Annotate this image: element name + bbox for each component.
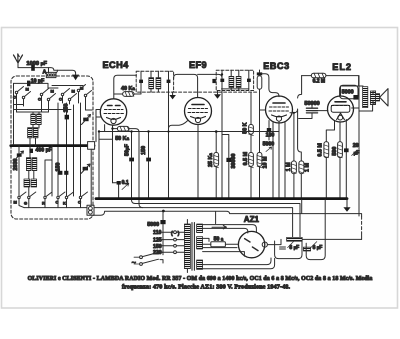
wire avc stub bbox=[99, 138, 113, 140]
tuning gang bus (thick) bbox=[11, 144, 94, 147]
ground arrow antenna bbox=[72, 75, 79, 81]
wire ECH4 left to gang bbox=[91, 110, 100, 206]
svg-text:50 K: 50 K bbox=[242, 122, 248, 133]
resistor 1M second bbox=[299, 161, 311, 174]
svg-text:(: ( bbox=[171, 231, 173, 237]
wire filter loop B bbox=[306, 200, 325, 260]
resistor 0.5M screen bbox=[318, 142, 329, 158]
svg-text:1 M: 1 M bbox=[305, 163, 311, 172]
RF coil L2 bbox=[28, 128, 38, 138]
power transformer bbox=[184, 220, 202, 273]
svg-text:150: 150 bbox=[63, 104, 69, 113]
svg-text:EF9: EF9 bbox=[189, 60, 207, 70]
wire filter loop A bbox=[275, 241, 302, 259]
capacitor 1000pF bbox=[26, 61, 47, 71]
capacitor 0.1 bbox=[113, 180, 129, 190]
wire coupling top bbox=[302, 76, 359, 86]
capacitor 150 bbox=[141, 132, 151, 199]
capacitor 400pF bbox=[29, 148, 52, 154]
HT line bbox=[135, 204, 300, 240]
wire interior horizontals bbox=[14, 86, 93, 115]
mains switch bbox=[132, 252, 163, 267]
wire heater winding bbox=[203, 248, 275, 269]
svg-text:A: A bbox=[43, 69, 47, 75]
voltage taps bbox=[153, 230, 184, 256]
trimmer top right bbox=[82, 115, 91, 125]
resistor 50K bbox=[242, 93, 253, 136]
ground bus (thick) bbox=[96, 197, 347, 200]
svg-text:C: C bbox=[38, 96, 41, 101]
wire EL2 legs bbox=[326, 120, 346, 199]
wire HT winding to AZ1 bbox=[203, 225, 257, 242]
trimmer lower right bbox=[81, 164, 90, 174]
osc coil L4 bbox=[24, 179, 37, 187]
AVC dashed line bbox=[174, 91, 258, 93]
resistor 10M bbox=[257, 89, 269, 198]
svg-text:5000: 5000 bbox=[342, 90, 354, 96]
wire IF1 to EF9 grid bbox=[174, 74, 222, 198]
band switch contacts row 2 bbox=[14, 192, 88, 206]
svg-text:C: C bbox=[59, 96, 62, 101]
svg-text:0.5 M: 0.5 M bbox=[318, 143, 324, 157]
wire EL2 plate to output transformer bbox=[341, 86, 364, 108]
tube EL2 bbox=[328, 96, 354, 122]
junction box on gang bus bbox=[88, 142, 95, 150]
diode load resistor bbox=[257, 70, 262, 89]
wire verticals inside coil box bbox=[58, 103, 81, 196]
wire switch commons to mains line bbox=[19, 199, 81, 208]
capacitor 8uF second bbox=[303, 242, 322, 251]
IF transformer 2 bbox=[216, 70, 253, 90]
wire EF9 legs bbox=[169, 92, 199, 199]
capacitor 5000 tone bbox=[340, 85, 359, 99]
wire IF2 to EBC3 bbox=[262, 74, 279, 97]
resistor cathode ECH4 bbox=[113, 126, 143, 207]
svg-text:150: 150 bbox=[153, 244, 162, 250]
wires left interior bbox=[14, 83, 53, 196]
tube EBC3 bbox=[266, 96, 293, 123]
antenna bbox=[14, 54, 23, 68]
ground arrow IF2 bbox=[214, 91, 221, 99]
resistor 0.5M bbox=[243, 134, 253, 198]
svg-text:30000: 30000 bbox=[231, 154, 237, 169]
svg-text:EL2: EL2 bbox=[332, 62, 352, 72]
tube AZ1 bbox=[238, 215, 267, 258]
resistor 25K bbox=[208, 132, 218, 199]
wire EBC3 plate up to coupling bbox=[260, 76, 302, 199]
svg-text:frequenza: 470 kc/s. Placche A: frequenza: 470 kc/s. Placche AZ1: 380 V.… bbox=[122, 283, 291, 290]
svg-text:ECH4: ECH4 bbox=[103, 60, 130, 70]
svg-text:1000 pF: 1000 pF bbox=[26, 61, 47, 67]
capacitor 50pF bbox=[124, 132, 135, 204]
wire antenna to coupling bbox=[18, 68, 76, 75]
ground arrow main bbox=[343, 199, 350, 212]
wire EF9 plate stub bbox=[222, 88, 249, 90]
svg-text:400 pF: 400 pF bbox=[36, 148, 52, 154]
svg-text:OLIVIERI e CLISENTI - LAMBDA R: OLIVIERI e CLISENTI - LAMBDA RADIO Mod. … bbox=[28, 276, 373, 282]
svg-text:5000: 5000 bbox=[147, 222, 159, 228]
capacitor 10pF bbox=[14, 78, 49, 88]
wire ECH4 legs bbox=[99, 125, 119, 199]
resistor 50 surge bbox=[203, 226, 239, 247]
dashed coil box bbox=[11, 76, 93, 219]
filter line bbox=[267, 239, 361, 244]
resistor 50000 grid bbox=[299, 101, 328, 118]
tube EF9 bbox=[185, 98, 212, 125]
capacitor 150 (osc padder) bbox=[63, 104, 69, 120]
wire EBC3 legs bbox=[273, 122, 285, 199]
osc coil L3 bbox=[26, 158, 36, 171]
junction dots bbox=[98, 73, 295, 212]
RF coil L1 bbox=[31, 112, 41, 128]
svg-text:125: 125 bbox=[153, 238, 162, 244]
svg-text:10 M: 10 M bbox=[263, 156, 269, 168]
svg-text:0.2 M: 0.2 M bbox=[313, 79, 326, 85]
capacitor 30000 bbox=[222, 135, 237, 199]
wire left risers bbox=[17, 92, 86, 112]
svg-text:EBC3: EBC3 bbox=[263, 61, 289, 71]
label 5000 detector bbox=[263, 142, 275, 152]
resistor 0.2M bbox=[311, 73, 326, 84]
output transformer bbox=[359, 76, 376, 216]
speaker field dashed bbox=[361, 216, 363, 235]
svg-text:AZ1: AZ1 bbox=[244, 215, 260, 224]
coil A bbox=[43, 69, 58, 77]
capacitor 150 lower bbox=[55, 163, 68, 175]
IF transformer 1 bbox=[136, 71, 173, 92]
capacitor 100 bbox=[266, 121, 275, 141]
mains line upper bbox=[24, 208, 293, 238]
resistor 1M bbox=[286, 113, 297, 199]
svg-text:~: ~ bbox=[132, 258, 137, 267]
band switch contacts row 1 bbox=[13, 85, 92, 102]
tube ECH4 bbox=[100, 99, 126, 125]
long screen rail bbox=[99, 131, 279, 133]
svg-text:2030: 2030 bbox=[13, 159, 19, 171]
variable capacitor 2030 bbox=[13, 151, 24, 171]
capacitor 20uF bbox=[344, 143, 360, 156]
resistor 40K grid stopper bbox=[114, 75, 141, 99]
ground arrow IF1 bbox=[169, 92, 176, 99]
speaker bbox=[373, 89, 388, 106]
capacitor 8uF first bbox=[280, 237, 303, 250]
svg-text:K: K bbox=[63, 201, 66, 206]
capacitor 5000 mains bbox=[147, 211, 165, 255]
svg-text:20: 20 bbox=[353, 143, 359, 149]
svg-text:150: 150 bbox=[141, 146, 147, 155]
svg-text:110: 110 bbox=[153, 230, 161, 236]
svg-text:150: 150 bbox=[55, 163, 61, 172]
wire to coil A bbox=[48, 68, 50, 73]
pilot lamp bbox=[87, 205, 94, 215]
capacitor IF2 left trimmer bbox=[212, 79, 216, 83]
resistor 500 cathode bbox=[332, 142, 342, 158]
mains line lower bbox=[92, 200, 362, 224]
svg-text:G: G bbox=[24, 201, 27, 206]
